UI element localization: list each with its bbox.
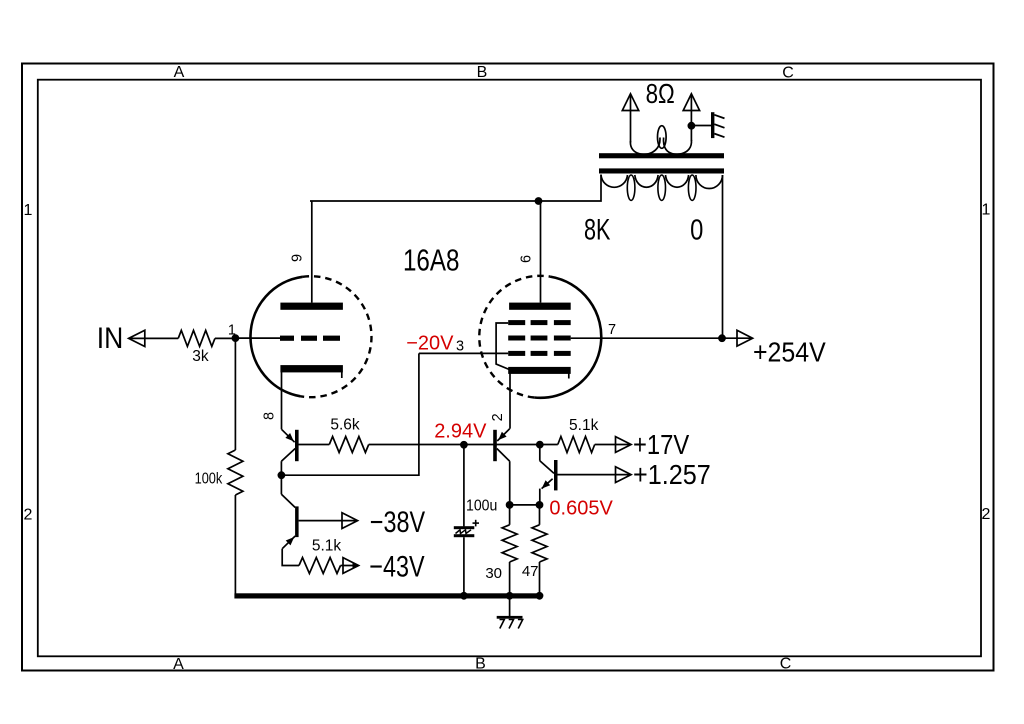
junction dot node 30 (506, 501, 514, 509)
wire 2.94V rail middle (369, 444, 558, 446)
frame label B top (477, 64, 488, 81)
pin label 3 (456, 338, 464, 354)
svg-text:7: 7 (608, 322, 616, 338)
pin label 2 (490, 413, 506, 421)
svg-text:2: 2 (490, 413, 506, 421)
transistor Q2 emitter lead (542, 479, 553, 489)
label 30 (485, 565, 502, 582)
wire node47 down (539, 505, 541, 525)
tube V1 pentode envelope dashed arc (479, 276, 550, 398)
svg-text:−20V: −20V (406, 332, 454, 354)
tube V1 triode envelope solid arc (250, 277, 302, 397)
transistor Q1 base bar (493, 430, 497, 461)
frame label 2 right (982, 506, 991, 523)
svg-text:1: 1 (982, 202, 991, 219)
transformer primary right lead (722, 175, 724, 338)
label 16A8 (403, 243, 459, 278)
wire to +17V arrow (595, 444, 630, 446)
transistor Q1 collector lead (497, 449, 510, 505)
transistor Q3 collector lead (281, 449, 295, 476)
pentode cathode lead pin 2 (509, 374, 511, 429)
node 1 junction dot (232, 334, 240, 342)
border frame outer (22, 64, 994, 671)
wire screen pin7 to +254V node (571, 337, 722, 339)
triode plate bar (280, 303, 343, 310)
transistor Q2 collector lead (540, 445, 554, 474)
transistor Q2 emitter arrow (542, 480, 551, 488)
pin label 8 (262, 412, 278, 420)
wire node1 down to 100k (234, 338, 236, 450)
label 100k (195, 470, 223, 488)
pentode grid g1 dashes (row3) (508, 351, 571, 356)
junction dot secondary ground tap (688, 122, 696, 130)
transistor Q4 base bar (295, 506, 299, 537)
svg-text:3: 3 (456, 338, 464, 354)
wire -20V vertical and bottom (281, 353, 419, 475)
transistor Q4 emitter arrow (286, 537, 295, 545)
label 0 (primary) (690, 213, 703, 246)
svg-text:IN: IN (97, 322, 124, 355)
wire tap to chassis ground (691, 125, 711, 127)
resistor 47 (532, 525, 547, 562)
label -43V (369, 550, 424, 583)
wire 2.94V rail left segment (298, 444, 330, 446)
wire to +254V arrow (722, 337, 751, 339)
wire Q3 node down to Q4 (280, 475, 282, 494)
transformer secondary winding (630, 126, 691, 155)
svg-text:B: B (477, 64, 488, 81)
resistor 5.1k upper (558, 437, 595, 453)
svg-text:B: B (475, 656, 486, 673)
wire cap node down (463, 445, 465, 527)
junction dot bus 47 (536, 592, 544, 600)
label -38V (370, 505, 425, 538)
label 2.94V (434, 420, 487, 442)
pentode grid g2 dashes (row2) (508, 336, 571, 341)
wire plate rail y=201 (310, 175, 601, 202)
label +254V (753, 336, 826, 368)
speaker terminal arrow right (683, 94, 699, 111)
pin label 7 (608, 322, 616, 338)
svg-text:2: 2 (24, 507, 33, 524)
pentode grid g3 dashes (row1) (508, 320, 571, 325)
tube V1 pentode envelope solid arc (534, 277, 601, 398)
transistor Q1 emitter lead (497, 429, 510, 441)
svg-text:3k: 3k (192, 348, 209, 365)
wire input to R 3k (130, 337, 178, 339)
svg-text:100k: 100k (195, 470, 223, 488)
resistor 3k (178, 330, 215, 346)
svg-text:6: 6 (518, 255, 534, 263)
svg-text:8: 8 (262, 412, 278, 420)
wire Q2 base to +1.257 arrow (558, 474, 630, 476)
label IN (97, 322, 124, 355)
terminal arrow -38V (342, 513, 358, 529)
junction dot pin6 tap (535, 197, 543, 205)
label 5.6k (330, 416, 360, 433)
junction dot capacitor node (460, 441, 468, 449)
label 100u (466, 497, 497, 515)
svg-text:+254V: +254V (753, 336, 826, 368)
svg-text:0: 0 (690, 213, 703, 246)
svg-text:8Ω: 8Ω (646, 79, 675, 110)
frame label C bottom (780, 656, 792, 673)
wire 100k to ground bus (234, 495, 236, 596)
label 5.1k upper (569, 417, 599, 434)
wire node30 down (509, 505, 511, 525)
triode plate lead pin 9 (311, 201, 313, 303)
transistor Q4 emitter lead (282, 536, 295, 549)
wire 47 to bus (539, 562, 541, 596)
junction dot Q2 collector node (536, 441, 544, 449)
speaker terminal arrow left (622, 94, 638, 111)
svg-text:−43V: −43V (369, 550, 424, 583)
ground symbol (497, 616, 523, 629)
label +17V (633, 428, 690, 460)
svg-text:C: C (782, 65, 794, 82)
svg-text:1: 1 (24, 202, 33, 219)
frame label 2 left (24, 507, 33, 524)
transistor Q2 base bar (554, 460, 558, 490)
junction dot Q3 collector node (278, 471, 286, 479)
transistor Q3 emitter lead (282, 429, 295, 442)
pin label 9 (290, 254, 306, 262)
svg-text:0.605V: 0.605V (549, 498, 613, 520)
svg-text:5.1k: 5.1k (312, 538, 342, 555)
svg-text:16A8: 16A8 (403, 243, 459, 278)
pentode cathode bar (508, 367, 571, 379)
ground symbol stub (509, 599, 511, 617)
input terminal arrow (129, 330, 145, 346)
label 0.605V (549, 498, 613, 520)
transformer core bars (599, 153, 724, 173)
wire Q4 emitter down to 5.1k (282, 549, 299, 566)
terminal arrow +254V (737, 330, 753, 346)
terminal arrow -43V (343, 558, 359, 574)
border frame inner (38, 80, 981, 657)
svg-text:9: 9 (290, 254, 306, 262)
wire through -43V arrow (341, 565, 358, 567)
transistor Q3 base bar (295, 430, 299, 461)
wire Q2 emitter down (539, 489, 541, 505)
svg-text:5.1k: 5.1k (569, 417, 599, 434)
svg-text:+1.257: +1.257 (633, 459, 711, 491)
label 8ohm (646, 79, 675, 110)
svg-text:2.94V: 2.94V (434, 420, 487, 442)
ground bus (234, 593, 542, 598)
svg-text:8K: 8K (584, 212, 611, 246)
wire cap to ground bus (463, 537, 465, 596)
wire node1 to triode grid (235, 337, 280, 339)
label +1.257 (633, 459, 711, 491)
terminal arrow +17V (616, 437, 632, 453)
terminal arrow +1.257 (616, 467, 632, 483)
frame label 1 left (24, 202, 33, 219)
triode grid dashes (280, 336, 340, 341)
transistor Q3 emitter arrow (285, 433, 293, 441)
label -20V (406, 332, 454, 354)
label 47 (522, 563, 539, 580)
junction dot node 47 (536, 501, 544, 509)
resistor 5.1k lower (299, 558, 341, 574)
svg-text:A: A (173, 656, 184, 673)
transistor Q1 emitter arrow (498, 432, 506, 440)
label 3k (192, 348, 209, 365)
frame label A bottom (173, 656, 184, 673)
svg-text:−38V: −38V (370, 505, 425, 538)
pin label 1 (triode grid) (228, 323, 236, 339)
tube V1 triode envelope dashed arc (301, 276, 372, 397)
pin label 6 (518, 255, 534, 263)
solid arrowhead at -43V (353, 563, 361, 569)
transformer secondary right lead (690, 96, 692, 142)
svg-text:5.6k: 5.6k (330, 416, 360, 433)
svg-text:2: 2 (982, 506, 991, 523)
resistor 30 (502, 525, 517, 562)
triode cathode lead pin 8 (281, 372, 283, 429)
chassis ground symbol (711, 112, 725, 138)
triode cathode bar (280, 365, 343, 378)
svg-text:1: 1 (228, 323, 236, 339)
svg-text:47: 47 (522, 563, 539, 580)
frame label C top (782, 65, 794, 82)
frame label 1 right (982, 202, 991, 219)
label 5.1k lower (312, 538, 342, 555)
svg-text:A: A (174, 64, 185, 81)
frame label B bottom (475, 656, 486, 673)
pentode plate lead pin 6 (540, 201, 542, 303)
transformer primary winding (601, 175, 723, 200)
junction dot +254V node (718, 334, 726, 342)
capacitor plus sign (473, 520, 480, 527)
junction dot bus cap (460, 592, 468, 600)
pentode plate bar (509, 303, 571, 310)
wire Q4 base to -38V arrow (299, 520, 357, 522)
svg-text:+17V: +17V (633, 428, 690, 460)
resistor 5.6k (329, 437, 368, 453)
transformer secondary left lead (630, 96, 632, 143)
junction dot bus 30 (506, 592, 514, 600)
svg-text:100u: 100u (466, 497, 497, 515)
svg-text:30: 30 (485, 565, 502, 582)
wire 3k to node 1 (215, 337, 236, 339)
wire g1 lead from -20V corner (419, 352, 508, 354)
transistor Q4 collector lead (281, 494, 295, 507)
wire 30 to bus (509, 562, 511, 596)
svg-text:C: C (780, 656, 792, 673)
pentode g3-cathode strap bracket (496, 323, 509, 370)
resistor 100k (228, 450, 243, 495)
label 8K (584, 212, 611, 246)
wire 100u node link (510, 504, 540, 506)
capacitor 100u (454, 526, 475, 537)
frame label A top (174, 64, 185, 81)
